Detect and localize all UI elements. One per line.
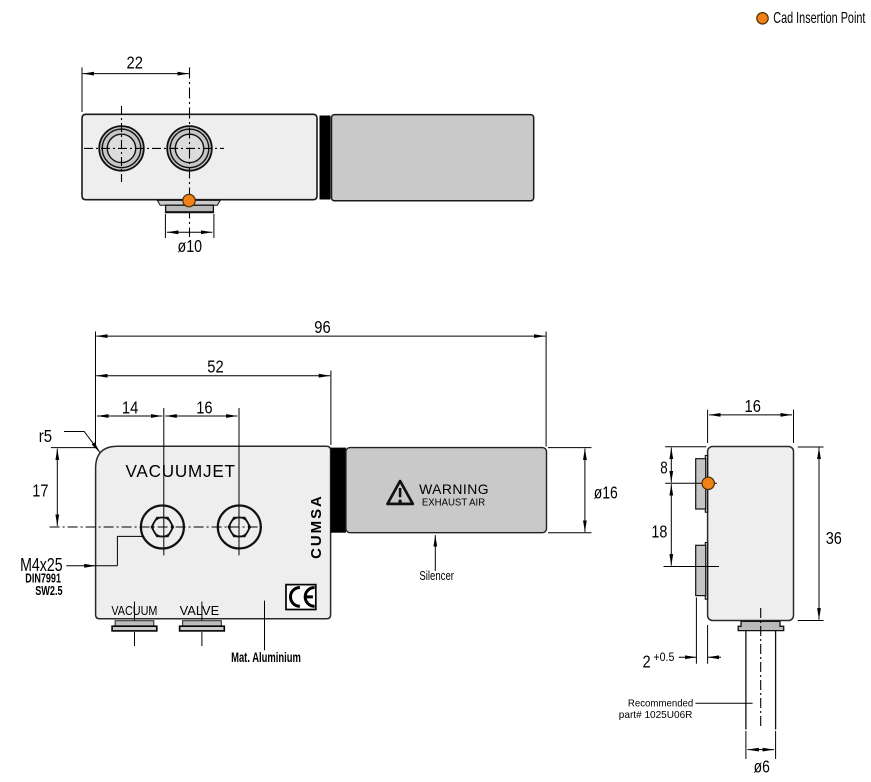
top view: vertical centerline port 2 / extension of dim 22: [189, 68, 191, 238]
dimension 17: extension line top: [51, 447, 96, 449]
dimension 2+0.5: right arrow: [708, 656, 721, 658]
dimension 96: dimension line: [96, 335, 545, 337]
front view: body block: [96, 446, 331, 618]
side view: bottom collar: [738, 621, 784, 630]
svg-text:ø6: ø6: [754, 757, 770, 777]
side view: port fitting tab 1: [696, 459, 706, 509]
top view: vertical centerline port 1: [121, 106, 123, 182]
top view: black gasket band: [320, 116, 331, 200]
svg-text:SW2.5: SW2.5: [35, 583, 63, 598]
svg-text:WARNING: WARNING: [419, 481, 488, 497]
front view: horizontal centerline through screw holes: [50, 526, 262, 528]
side view: tube centerline: [760, 608, 762, 728]
Recommended leader line: [696, 702, 753, 704]
extension/centerline through screw hole 2: [238, 408, 240, 555]
svg-text:EXHAUST AIR: EXHAUST AIR: [422, 497, 485, 508]
silencer: warning triangle icon: [388, 481, 413, 504]
svg-text:2: 2: [643, 652, 651, 672]
svg-text:36: 36: [826, 528, 842, 548]
svg-text:ø16: ø16: [594, 483, 618, 503]
svg-text:14: 14: [122, 397, 139, 417]
side view: port fitting tab 1 lip: [705, 456, 707, 513]
svg-text:+0.5: +0.5: [653, 650, 674, 664]
svg-text:52: 52: [207, 357, 223, 377]
front view: valve fitting nub: [183, 621, 222, 627]
side view: port fitting tab 2: [696, 545, 706, 595]
top view: bottom fitting nub: [157, 200, 220, 205]
dimension ø10: dimension line with arrows: [167, 231, 213, 233]
M4x25 leader with arrow at body edge: [66, 536, 143, 567]
dimension 36: extension lines: [798, 446, 824, 448]
svg-text:r5: r5: [39, 426, 52, 446]
svg-text:Mat. Aluminium: Mat. Aluminium: [231, 650, 301, 665]
dimension 17: dimension line: [56, 449, 58, 526]
dimension 8: dimension line: [670, 448, 672, 483]
dimension 2+0.5: extension lines: [695, 598, 697, 664]
label r5 leader line: [64, 432, 100, 453]
top view: horizontal centerline through ports: [84, 147, 224, 149]
svg-text:ø10: ø10: [178, 236, 203, 256]
silencer label leader arrow: [434, 535, 436, 571]
dimension ø16: dimension line: [584, 449, 586, 532]
front view: vacuum port centerline: [134, 602, 136, 647]
top view: body block: [82, 114, 317, 199]
dimension 22: extension line left: [81, 67, 83, 112]
dimension 96: extension line left: [95, 332, 97, 446]
dimension 8: extension line top: [665, 446, 706, 448]
dimension 52: dimension line: [96, 375, 330, 377]
front view: screw hole 2 with hex socket: [218, 506, 261, 549]
svg-text:17: 17: [32, 481, 48, 501]
dimension 2+0.5: left arrow: [679, 656, 697, 658]
svg-text:VACUUMJET: VACUUMJET: [126, 462, 236, 481]
dimension ø10: extension lines: [164, 214, 166, 238]
dimension 16 (side): dimension line: [709, 414, 792, 416]
svg-text:Silencer: Silencer: [419, 568, 454, 583]
front view: valve port centerline: [201, 602, 203, 647]
svg-text:8: 8: [660, 458, 667, 478]
dimension 18: dimension line: [670, 484, 672, 565]
side view: port fitting tab 2 lip: [705, 543, 707, 600]
dimension 16: dimension line: [165, 415, 237, 417]
svg-text:22: 22: [127, 53, 143, 73]
Mat. Aluminium leader line: [264, 601, 266, 651]
top view: silencer block: [332, 115, 534, 201]
dimension 8: centerline through dot: [665, 482, 717, 484]
front view: CE mark: [286, 585, 316, 610]
side view: tube left wall: [745, 631, 747, 730]
dimension ø6: extension lines: [745, 731, 747, 759]
side view: tube right wall: [775, 631, 777, 730]
top view: cad insertion point dot: [183, 194, 195, 206]
dimension 36: dimension line: [818, 448, 820, 620]
front view: vacuum fitting nub: [115, 621, 154, 627]
dimension 16 (side): extension lines: [707, 410, 709, 443]
svg-text:Recommended: Recommended: [628, 699, 694, 710]
svg-text:VALVE: VALVE: [180, 604, 220, 618]
dimension 22: dimension line with arrows: [83, 73, 189, 75]
svg-text:18: 18: [651, 521, 667, 541]
svg-text:16: 16: [745, 396, 761, 416]
side view: body block: [708, 447, 794, 621]
svg-text:CUMSA: CUMSA: [308, 496, 325, 559]
top view: port hole 1 (left): [99, 126, 144, 171]
svg-text:Cad Insertion Point: Cad Insertion Point: [773, 10, 866, 27]
front view: silencer body: [346, 448, 547, 533]
dimension 14: dimension line: [97, 415, 162, 417]
front view: black gasket band: [331, 448, 346, 533]
svg-text:96: 96: [314, 317, 330, 337]
front view: screw hole 1 with hex socket: [141, 506, 184, 549]
side view: cad insertion point dot: [702, 477, 714, 489]
extension/centerline through screw hole 1: [163, 408, 165, 555]
top view: port hole 2 (right): [167, 126, 212, 171]
svg-text:part# 1025U06R: part# 1025U06R: [619, 710, 693, 721]
dimension ø6: dimension line: [747, 749, 774, 751]
svg-text:16: 16: [196, 397, 212, 417]
legend: Cad Insertion Point marker dot: [757, 13, 768, 24]
dimension 18: extension line bottom: [664, 566, 720, 568]
dimension 52: extension line right: [330, 371, 332, 446]
dimension ø16: extension lines: [548, 447, 592, 449]
dimension 96: extension line right: [545, 332, 547, 447]
